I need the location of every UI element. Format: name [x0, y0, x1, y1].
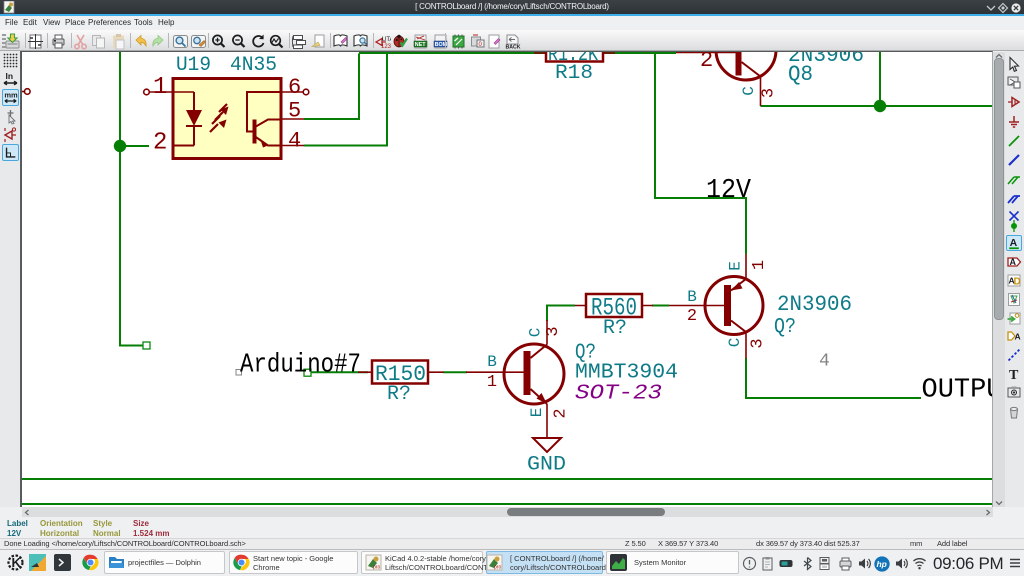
- svg-text:K: K: [12, 555, 22, 570]
- svg-text:5: 5: [288, 99, 301, 124]
- svg-text:SOT-23: SOT-23: [575, 383, 662, 406]
- svg-text:1: 1: [487, 373, 497, 392]
- svg-text:B: B: [687, 288, 697, 306]
- svg-text:2N3906: 2N3906: [777, 292, 852, 317]
- svg-text:3: 3: [749, 338, 768, 348]
- svg-text:1: 1: [153, 74, 167, 101]
- svg-text:2: 2: [552, 408, 571, 418]
- svg-text:T: T: [1009, 368, 1019, 382]
- svg-text:A: A: [1010, 237, 1018, 249]
- svg-text:Q?: Q?: [774, 316, 796, 339]
- svg-text:Arduino#7: Arduino#7: [240, 351, 361, 381]
- svg-text:A: A: [1010, 257, 1017, 267]
- svg-text:1: 1: [750, 260, 769, 270]
- svg-text:In: In: [6, 71, 14, 81]
- svg-text:3: 3: [544, 326, 563, 336]
- svg-text:C: C: [740, 86, 758, 96]
- svg-text:R18: R18: [555, 62, 593, 85]
- svg-text:mm: mm: [4, 91, 18, 100]
- svg-text:R?: R?: [387, 383, 411, 406]
- svg-text:2: 2: [700, 52, 713, 73]
- svg-text:C: C: [726, 338, 744, 348]
- svg-text:Q8: Q8: [788, 62, 813, 87]
- svg-text:2: 2: [153, 130, 167, 157]
- svg-text:4: 4: [819, 352, 830, 372]
- svg-text:D: D: [1014, 277, 1021, 288]
- svg-text:UTA: UTA: [382, 37, 391, 43]
- svg-text:NET: NET: [415, 42, 426, 48]
- svg-text:123: 123: [381, 44, 391, 50]
- svg-text:OUTPUT: OUTPUT: [922, 376, 993, 406]
- svg-text:4: 4: [288, 129, 301, 154]
- svg-text:pro: pro: [373, 565, 380, 571]
- svg-text:GND: GND: [527, 454, 566, 477]
- svg-text:B: B: [487, 353, 497, 371]
- svg-text:12V: 12V: [706, 176, 752, 206]
- svg-text:MMBT3904: MMBT3904: [575, 361, 678, 384]
- svg-text:4N35: 4N35: [230, 54, 277, 77]
- svg-text:C: C: [527, 328, 545, 338]
- svg-text:R?: R?: [603, 317, 627, 340]
- svg-text:A: A: [1015, 332, 1021, 342]
- svg-text:2: 2: [687, 307, 697, 326]
- svg-text:E: E: [528, 408, 546, 418]
- svg-text:3: 3: [760, 88, 779, 98]
- svg-text:6: 6: [288, 75, 301, 100]
- svg-text:U19: U19: [176, 54, 211, 77]
- svg-text:pro: pro: [494, 565, 501, 571]
- svg-text:hp: hp: [876, 559, 886, 569]
- svg-text:BACK: BACK: [506, 45, 521, 51]
- svg-text:E: E: [727, 261, 745, 271]
